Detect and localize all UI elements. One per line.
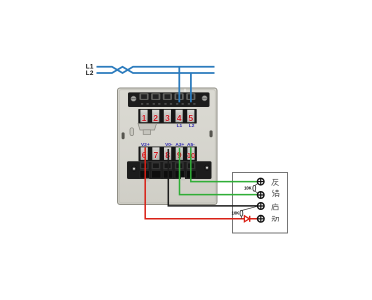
terminal row 1-5 base: [138, 109, 196, 124]
svg-text:10K: 10K: [232, 211, 240, 216]
terminal 3: [164, 110, 171, 123]
svg-text:L2: L2: [189, 123, 195, 129]
module plate: [118, 88, 218, 205]
wire L1: [97, 67, 215, 73]
svg-text:1: 1: [142, 113, 147, 123]
terminal 10: [187, 147, 195, 160]
wire green from A3+: [180, 148, 259, 195]
terminal T4 start-: [257, 215, 264, 222]
terminal row 6-10 base: [139, 147, 197, 162]
wire L1 drop to terminal 4: [178, 67, 180, 103]
label kui (feedback char 2): [272, 190, 279, 197]
svg-text:4: 4: [177, 113, 182, 123]
diode D1: [244, 216, 249, 222]
wire black from V0-: [168, 149, 258, 206]
bottom terminal strip: [127, 161, 212, 181]
svg-text:3: 3: [165, 113, 170, 123]
terminal 1: [140, 110, 147, 123]
screw slot bottom-left: [130, 128, 134, 136]
wire green from A5-: [191, 148, 258, 182]
label dong (start char 2): [272, 216, 279, 221]
right slot: [210, 130, 213, 137]
terminal 5: [187, 110, 194, 123]
wire red from V2+ to start terminal: [145, 148, 258, 219]
wire L2 drop to terminal 5: [190, 73, 192, 102]
svg-text:5: 5: [188, 113, 193, 123]
terminal 6: [141, 147, 148, 160]
terminal T2 feedback-: [257, 192, 264, 199]
mounting tab: [138, 124, 157, 135]
device box: [233, 173, 288, 234]
svg-text:L1: L1: [177, 123, 183, 129]
resistor R2 10K: [240, 206, 258, 219]
terminal 2: [152, 110, 159, 123]
label qi (start char 1): [272, 203, 279, 210]
terminal T3 start+: [257, 203, 264, 210]
terminal T1 feedback+: [257, 178, 264, 185]
terminal 9: [176, 147, 183, 160]
top terminal strip: [128, 92, 210, 107]
svg-text:10K: 10K: [244, 186, 252, 191]
svg-text:2: 2: [153, 113, 158, 123]
terminal 8: [164, 147, 171, 160]
label fan (feedback char 1): [272, 179, 279, 186]
wire L2: [97, 67, 215, 73]
svg-text:7: 7: [154, 150, 159, 160]
svg-text:6: 6: [142, 150, 147, 160]
terminal 7: [152, 147, 159, 160]
svg-text:L2: L2: [86, 70, 94, 77]
terminal 4: [176, 110, 183, 123]
resistor R1 10K: [253, 184, 258, 193]
left slot: [122, 132, 125, 139]
